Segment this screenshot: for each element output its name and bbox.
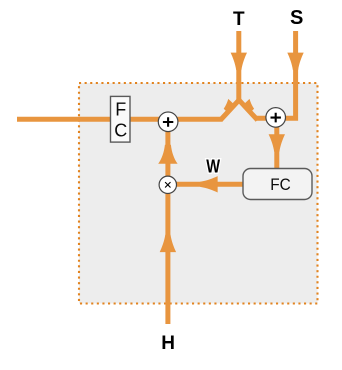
arrowhead on left hop diagonal (down-left): [221, 99, 236, 114]
svg-text:C: C: [114, 121, 127, 141]
arrowhead on right hop diagonal (down-right): [242, 99, 257, 114]
svg-text:H: H: [161, 333, 175, 354]
F/C gate box: [111, 96, 131, 142]
svg-text:T: T: [233, 9, 245, 30]
plus node (right): [266, 108, 286, 128]
arrowhead from multiply into plus (up): [158, 145, 177, 164]
wire: hop (lambda) from T junction down both sides: [221, 100, 258, 120]
arrowhead on T line (down): [231, 53, 247, 71]
wire: main horizontal line from left edge to hop: [17, 117, 223, 122]
svg-text:S: S: [290, 7, 303, 29]
multiply node: [159, 176, 176, 193]
svg-text:F: F: [115, 99, 126, 119]
cell body (gray dotted box): [79, 83, 318, 304]
wire: T input vertical line: [236, 31, 241, 103]
wire: vertical from right plus node down to FC box: [274, 118, 279, 169]
arrowhead into multiply node (left): [200, 176, 218, 192]
arrowhead on H line (up): [160, 235, 176, 253]
plus node (left): [158, 112, 178, 132]
wire: right horizontal segment to S corner and up (S input line): [256, 31, 296, 118]
FC box U1: [243, 169, 312, 200]
svg-text:FC: FC: [270, 176, 291, 194]
svg-text:W: W: [206, 155, 220, 176]
arrowhead into FC box (down): [269, 134, 285, 152]
wire: vertical through multiply node up to left plus node, and down to H input: [165, 122, 170, 324]
wire: from FC box left to multiply node: [177, 182, 244, 187]
arrowhead on S line (down): [287, 53, 303, 71]
